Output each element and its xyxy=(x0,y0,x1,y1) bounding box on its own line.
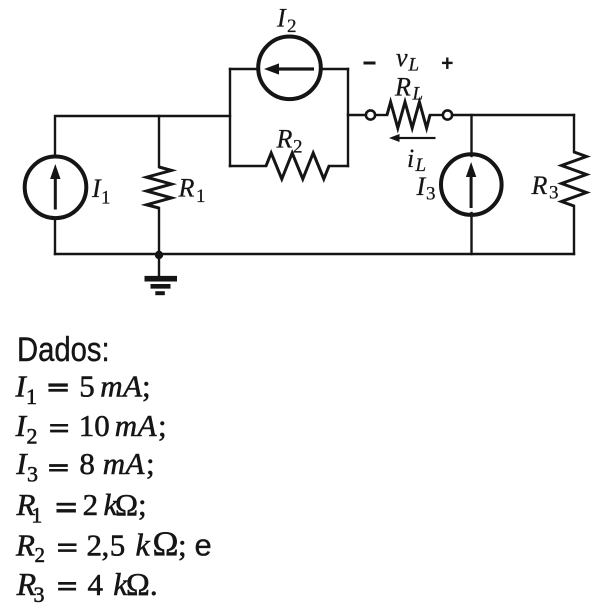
current source I1 xyxy=(25,157,87,219)
svg-text:;: ; xyxy=(142,369,151,404)
label I3 xyxy=(416,172,436,205)
wire R1 top stub xyxy=(158,116,160,167)
svg-text:1: 1 xyxy=(101,188,111,209)
svg-text:I: I xyxy=(276,4,287,33)
svg-text:2: 2 xyxy=(287,16,297,37)
wire parallel-box left edge xyxy=(229,69,231,166)
resistor R3 xyxy=(562,152,587,206)
svg-text:R: R xyxy=(178,174,195,203)
node a (open terminal left of RL) xyxy=(366,110,375,119)
wire RL to node b xyxy=(430,114,442,116)
wire R3 top stub xyxy=(573,115,575,152)
wire left vertical below I1 xyxy=(54,219,56,254)
svg-text:3: 3 xyxy=(27,461,38,486)
svg-text:L: L xyxy=(412,84,424,105)
arrow current iL xyxy=(389,134,436,142)
value line R3 = 4 kOhm xyxy=(16,566,158,607)
wire node b to R3 top xyxy=(453,114,574,116)
current source I3 xyxy=(441,154,502,215)
svg-text:3: 3 xyxy=(549,183,559,204)
value line I3 = 8 mA xyxy=(15,446,154,486)
svg-text:R: R xyxy=(15,528,35,563)
ground xyxy=(145,279,178,294)
svg-text:;: ; xyxy=(178,528,187,563)
label iL xyxy=(407,144,426,176)
value line R2 = 2,5 kOhm e xyxy=(15,525,212,568)
svg-text:v: v xyxy=(396,43,408,72)
svg-text:e: e xyxy=(195,528,212,563)
svg-text:;: ; xyxy=(146,446,155,481)
label plus (vL polarity) xyxy=(442,58,453,69)
svg-text:1: 1 xyxy=(31,503,42,528)
svg-text:Ω.: Ω. xyxy=(126,566,158,602)
junction dot R1-bottom xyxy=(155,251,163,259)
wire parallel-box top branch right xyxy=(322,68,348,70)
svg-text:2: 2 xyxy=(293,137,303,158)
label vL xyxy=(396,43,419,76)
svg-text:5: 5 xyxy=(79,369,95,404)
wire parallel-box right edge xyxy=(347,69,349,166)
svg-text:I: I xyxy=(416,172,427,201)
wire parallel-box bottom branch right xyxy=(329,165,348,167)
label I1 xyxy=(91,174,111,209)
wire parallel-box bottom branch left xyxy=(230,165,266,167)
wire ground stub xyxy=(158,254,160,277)
label I2 xyxy=(276,4,297,38)
svg-text:1: 1 xyxy=(196,186,206,207)
label minus (vL polarity) xyxy=(364,62,376,65)
svg-text:2: 2 xyxy=(83,487,99,522)
svg-text:mA: mA xyxy=(103,446,146,481)
node b (open terminal right of RL) xyxy=(443,110,452,119)
wire bottom horizontal xyxy=(55,253,574,255)
svg-text:10: 10 xyxy=(79,408,110,443)
svg-text:3: 3 xyxy=(426,184,436,205)
svg-text:3: 3 xyxy=(34,582,45,607)
svg-text:k: k xyxy=(136,527,151,563)
svg-text:2: 2 xyxy=(27,423,38,448)
wire R3 bottom stub xyxy=(573,206,575,254)
svg-text:1: 1 xyxy=(26,384,37,409)
value line I1 = 5 mA xyxy=(15,369,151,409)
svg-text:2: 2 xyxy=(87,528,103,563)
svg-text:4: 4 xyxy=(88,567,104,602)
value line R1 = 2 kOhm xyxy=(16,487,147,528)
wire top-left horizontal xyxy=(55,116,230,157)
svg-text:,: , xyxy=(102,528,110,563)
resistor RL xyxy=(387,102,430,128)
wire I3 top stub xyxy=(470,115,472,156)
wire parallel-box top branch left xyxy=(230,68,258,70)
svg-text:2: 2 xyxy=(35,543,46,567)
label RL xyxy=(394,73,423,105)
svg-text:R: R xyxy=(394,73,411,102)
wire node a to RL xyxy=(376,114,387,116)
svg-text:8: 8 xyxy=(79,446,95,481)
svg-text:R: R xyxy=(276,125,293,154)
svg-text:Ω: Ω xyxy=(153,525,179,564)
svg-text:mA: mA xyxy=(115,408,158,443)
wire box to node a xyxy=(348,114,365,116)
wire I3 bottom stub xyxy=(470,213,472,254)
svg-text:Ω;: Ω; xyxy=(115,487,147,522)
wire R1 bottom stub xyxy=(158,208,160,254)
label R3 xyxy=(531,171,559,204)
svg-text:L: L xyxy=(408,55,420,76)
svg-text:Dados:: Dados: xyxy=(17,330,110,369)
label R2 xyxy=(276,125,303,158)
current source I2 xyxy=(258,37,321,100)
resistor R2 xyxy=(266,153,329,179)
svg-text:;: ; xyxy=(158,408,167,443)
value line I2 = 10 mA xyxy=(15,408,167,448)
label R1 xyxy=(178,174,206,208)
svg-text:mA: mA xyxy=(100,369,143,404)
svg-text:i: i xyxy=(407,144,414,173)
svg-text:5: 5 xyxy=(110,528,126,563)
svg-text:R: R xyxy=(531,171,548,200)
resistor R1 xyxy=(147,167,172,208)
